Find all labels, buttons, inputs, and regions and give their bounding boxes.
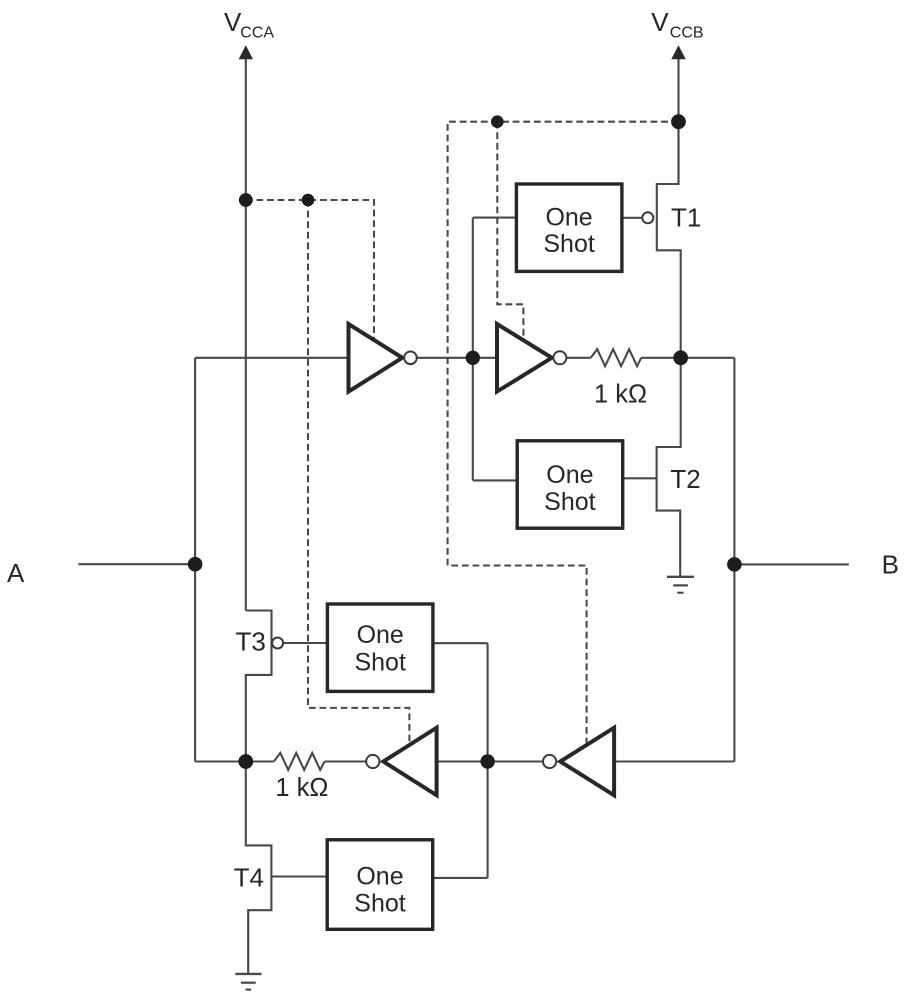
svg-text:One: One (356, 863, 403, 891)
junction dot VCCA / dashed net (239, 193, 253, 207)
wire U3 output to resistor R2 (325, 760, 367, 762)
U1 output bubble (404, 352, 417, 365)
VCCA rail wire (245, 59, 247, 611)
T1 gate bubble (642, 212, 653, 223)
transistor T3 (246, 611, 272, 762)
inverter U2 (497, 324, 552, 392)
ground for T4 (235, 974, 261, 990)
VCCB rail wire (677, 59, 679, 185)
wire B vertical to inverter U4 input (614, 760, 734, 762)
svg-text:Shot: Shot (354, 648, 405, 676)
U4 output bubble (543, 755, 556, 768)
ground for T2 (667, 577, 694, 593)
one-shot U7 box (327, 604, 433, 691)
U2 output bubble (553, 351, 566, 364)
resistor R1 (591, 349, 642, 366)
A port wire (78, 563, 195, 565)
svg-text:A: A (7, 558, 25, 588)
wire T3 bubble to one-shot U7 input (284, 642, 328, 644)
VCCB arrow (671, 45, 685, 59)
wire U2 output to resistor R1 (567, 357, 591, 359)
junction dot bottom node (one-shot outputs) (480, 754, 494, 768)
svg-text:One: One (357, 621, 404, 649)
U3 output bubble (366, 755, 379, 768)
svg-text:T1: T1 (671, 203, 701, 233)
wire T4 gate to one-shot U8 input (271, 875, 327, 877)
transistor T1 (657, 122, 681, 358)
svg-text:B: B (882, 550, 899, 580)
svg-text:1 kΩ: 1 kΩ (594, 381, 647, 409)
svg-text:V: V (224, 7, 242, 37)
svg-text:One: One (545, 204, 592, 232)
wire A vertical to resistor R2 (195, 760, 274, 762)
junction dot on dashed B net (491, 115, 504, 128)
wire A to inverter U1 input (195, 357, 348, 359)
wire to one-shot U6 input (473, 479, 517, 481)
svg-text:Shot: Shot (543, 230, 594, 258)
resistor R2 (274, 753, 325, 770)
wire resistor R1 to B net vertical (641, 357, 734, 359)
junction dot R2 / T4 drain (238, 754, 253, 769)
svg-text:CCB: CCB (670, 25, 704, 42)
svg-text:T3: T3 (236, 627, 266, 657)
wire U4 output to node (437, 760, 543, 762)
B net vertical wire (733, 358, 735, 762)
dashed net from VCCB node to inverter U4 gate control (448, 122, 679, 744)
junction dot VCCB / dashed net (671, 114, 686, 129)
wire U1 output to node (415, 357, 497, 359)
inverter U3 (383, 728, 436, 796)
dashed net to inverter U2 gate control (497, 122, 523, 339)
wire one-shot U8 output to node (433, 877, 488, 879)
dashed net from VCCA node to inverter U2 gate control (246, 200, 374, 340)
inverter U1 (349, 324, 403, 392)
svg-text:T4: T4 (234, 863, 264, 893)
junction dot on dashed A net (302, 194, 315, 207)
A net vertical wire (194, 358, 196, 762)
svg-text:CCA: CCA (240, 25, 274, 42)
svg-text:Shot: Shot (354, 890, 405, 918)
VCCA arrow (239, 45, 253, 59)
wire one-shot U5 to T1 gate bubble (622, 217, 642, 219)
svg-text:One: One (546, 461, 593, 489)
svg-text:Shot: Shot (544, 488, 595, 516)
svg-text:V: V (651, 7, 669, 37)
inverter U4 (560, 728, 614, 796)
wire one-shot inputs vertical (top) (472, 218, 474, 481)
svg-text:T2: T2 (670, 464, 700, 494)
wire one-shot U7 output to node (433, 642, 488, 644)
B port wire (734, 563, 848, 565)
wire one-shot outputs vertical (bottom) (487, 643, 489, 878)
one-shot U6 box (517, 441, 623, 528)
junction dot R1 / T1 source (673, 350, 688, 365)
dashed net from A-side node to inverter U3 gate control (308, 200, 409, 744)
junction dot top node (one-shot inputs) (466, 351, 480, 365)
wire one-shot U6 to T2 gate (623, 477, 657, 479)
wire to one-shot U5 input (473, 217, 517, 219)
svg-text:1 kΩ: 1 kΩ (275, 774, 328, 802)
one-shot U8 box (327, 840, 433, 930)
junction dot B port (727, 557, 742, 572)
transistor T4 (246, 762, 272, 975)
transistor T2 (657, 358, 681, 577)
one-shot U5 box (516, 184, 622, 271)
T3 gate bubble (272, 638, 283, 649)
junction dot A port (188, 557, 203, 572)
